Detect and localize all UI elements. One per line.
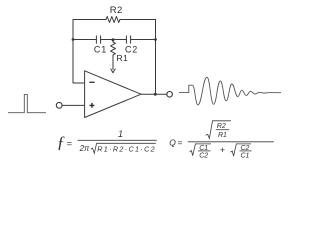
wire R1 to arrow	[112, 62, 114, 70]
capacitor C1	[96, 36, 100, 43]
node B (C1-C2-R1 junction)	[112, 38, 115, 41]
wire top-right segment	[120, 19, 156, 21]
capacitor C2	[126, 36, 130, 43]
wire right vertical	[155, 20, 157, 95]
resistor R1	[111, 40, 116, 63]
denominator sqrt(C1/C2)	[190, 144, 211, 156]
wire input to plus input	[62, 104, 84, 106]
svg-text:R2: R2	[217, 123, 226, 130]
svg-text:R2: R2	[110, 5, 123, 16]
svg-text:1: 1	[118, 129, 123, 139]
arrow (R1 return)	[111, 69, 116, 73]
svg-text:ƒ: ƒ	[57, 132, 66, 151]
wire left vertical to inverting input	[73, 20, 85, 84]
svg-text:R1: R1	[218, 132, 227, 139]
svg-text:=: =	[178, 138, 183, 147]
formula Q = sqrt(R2/R1) / (sqrt(C1/C2)+sqrt(C2/C1))	[169, 121, 274, 160]
op-amp minus pin mark	[89, 81, 94, 83]
op-amp plus pin mark	[90, 103, 95, 108]
wire cap line right	[131, 39, 156, 41]
input terminal	[56, 102, 62, 108]
svg-text:+: +	[220, 145, 225, 155]
svg-text:C1: C1	[241, 152, 250, 159]
wire between capacitors	[101, 39, 127, 41]
node D (output junction)	[154, 93, 157, 96]
resistor R2	[106, 17, 120, 23]
node A (left cap junction)	[72, 38, 75, 41]
svg-text:=: =	[67, 139, 73, 150]
output ringing waveform	[179, 77, 281, 105]
formula f = 1 / (2*pi*sqrt(R1*R2*C1*C2))	[57, 129, 157, 153]
svg-text:R1·R2·C1·C2: R1·R2·C1·C2	[97, 144, 156, 153]
svg-text:2π: 2π	[79, 144, 90, 153]
wire top-left segment	[73, 19, 106, 21]
node C (right cap junction)	[154, 38, 157, 41]
numerator sqrt(R2/R1)	[206, 121, 231, 139]
wire op-amp output	[141, 93, 167, 95]
svg-text:C1: C1	[94, 45, 107, 55]
op-amp U1	[85, 71, 141, 118]
svg-text:C2: C2	[199, 152, 208, 159]
output terminal	[167, 92, 173, 98]
denominator sqrt(C2/C1)	[231, 144, 252, 156]
wire cap line left	[73, 39, 96, 41]
input pulse waveform	[8, 94, 46, 112]
svg-text:Q: Q	[169, 137, 176, 147]
svg-text:R1: R1	[116, 53, 128, 63]
